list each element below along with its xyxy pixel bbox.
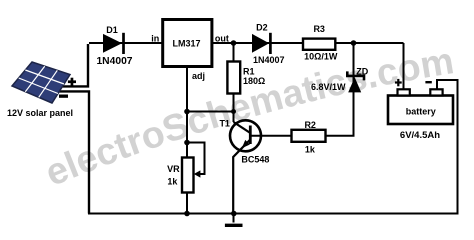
wire battery plus lead bbox=[403, 43, 405, 90]
label 1k (VR) bbox=[167, 177, 178, 187]
regulator IC LM317 bbox=[163, 20, 212, 67]
label VR bbox=[167, 164, 180, 174]
svg-text:1k: 1k bbox=[167, 177, 178, 187]
svg-text:6V/4.5Ah: 6V/4.5Ah bbox=[400, 130, 440, 141]
svg-text:10Ω/1W: 10Ω/1W bbox=[304, 52, 338, 62]
wire solar minus lead bbox=[48, 91, 89, 213]
ground bbox=[225, 214, 243, 226]
svg-text:R1: R1 bbox=[243, 66, 255, 76]
wire right rail to battery minus bbox=[437, 80, 458, 214]
svg-text:1k: 1k bbox=[305, 144, 316, 154]
label 1N4007 (D1) bbox=[96, 56, 132, 67]
label R2 bbox=[304, 120, 316, 130]
solar minus sign bbox=[59, 95, 68, 98]
wire zener branch bbox=[353, 43, 355, 136]
battery bbox=[388, 89, 453, 124]
VR wiper arrowhead bbox=[194, 170, 201, 177]
svg-text:R3: R3 bbox=[313, 24, 325, 34]
diode D2 bbox=[252, 33, 270, 54]
wire R1 top lead bbox=[233, 43, 235, 62]
label ZD bbox=[356, 66, 368, 76]
svg-text:battery: battery bbox=[406, 106, 436, 116]
junction dot collector node bbox=[231, 109, 236, 114]
svg-text:180Ω: 180Ω bbox=[243, 76, 265, 86]
label pin in bbox=[151, 34, 159, 44]
label battery bbox=[406, 106, 436, 116]
resistor R3 bbox=[303, 39, 335, 50]
resistor R2 bbox=[292, 130, 326, 142]
junction dot out node bbox=[231, 40, 237, 46]
svg-text:LM317: LM317 bbox=[172, 38, 200, 48]
junction dot wiper node bbox=[184, 140, 190, 146]
label 12V solar panel bbox=[7, 108, 73, 118]
label LM317 bbox=[172, 38, 200, 48]
svg-text:1N4007: 1N4007 bbox=[96, 56, 132, 67]
label BC548 bbox=[241, 154, 269, 164]
label pin adj bbox=[192, 71, 205, 81]
label 1k (R2) bbox=[305, 144, 316, 154]
label 6V/4.5Ah bbox=[400, 130, 440, 141]
wire emitter to ground bbox=[233, 140, 250, 214]
svg-text:BC548: BC548 bbox=[241, 154, 269, 164]
junction dot R3 node bbox=[351, 40, 357, 46]
svg-text:out: out bbox=[215, 34, 229, 44]
junction dot adj node bbox=[184, 109, 190, 115]
label D1 bbox=[106, 25, 118, 35]
wire solar plus lead bbox=[55, 44, 88, 86]
svg-text:D1: D1 bbox=[106, 25, 118, 35]
solar plus sign bbox=[68, 78, 76, 86]
svg-text:D2: D2 bbox=[256, 23, 268, 33]
svg-text:VR: VR bbox=[167, 164, 180, 174]
wire VR bottom lead bbox=[186, 192, 188, 214]
svg-text:R2: R2 bbox=[304, 120, 316, 130]
wire top rail bbox=[89, 42, 404, 44]
wire R2 right lead bbox=[326, 135, 355, 137]
label 6.8V/1W bbox=[311, 82, 346, 92]
label pin out bbox=[215, 34, 229, 44]
wire adj to collector link bbox=[186, 111, 234, 113]
wire bottom rail bbox=[88, 213, 459, 215]
label R1 bbox=[243, 66, 255, 76]
wire base to R2 bbox=[250, 135, 291, 137]
svg-text:1N4007: 1N4007 bbox=[253, 55, 285, 65]
battery minus sign bbox=[425, 81, 431, 83]
label R3 bbox=[313, 24, 325, 34]
label 180ohm bbox=[243, 76, 265, 86]
junction dot VR ground node bbox=[184, 211, 190, 217]
svg-text:6.8V/1W: 6.8V/1W bbox=[311, 82, 346, 92]
battery plus sign bbox=[395, 79, 402, 86]
label D2 bbox=[256, 23, 268, 33]
resistor R1 bbox=[227, 62, 240, 94]
label 10ohm/1W bbox=[304, 52, 338, 62]
svg-text:adj: adj bbox=[192, 71, 205, 81]
svg-text:12V solar panel: 12V solar panel bbox=[7, 108, 73, 118]
wire R1 bottom to collector bbox=[233, 93, 235, 122]
potentiometer VR bbox=[182, 158, 194, 193]
diode D1 bbox=[103, 33, 124, 54]
transistor T1 BC548 bbox=[230, 120, 261, 151]
svg-text:in: in bbox=[151, 34, 159, 44]
watermark electroSchematics.com bbox=[39, 39, 456, 194]
zener diode ZD bbox=[347, 71, 364, 92]
svg-text:ZD: ZD bbox=[356, 66, 368, 76]
solar panel PV1 bbox=[12, 62, 70, 103]
junction dot emitter ground node bbox=[231, 211, 237, 217]
wire VR wiper link bbox=[187, 143, 205, 175]
svg-text:T1: T1 bbox=[219, 118, 230, 128]
wire LM317 adj lead bbox=[186, 66, 188, 158]
label T1 bbox=[219, 118, 230, 128]
label 1N4007 (D2) bbox=[253, 55, 285, 65]
